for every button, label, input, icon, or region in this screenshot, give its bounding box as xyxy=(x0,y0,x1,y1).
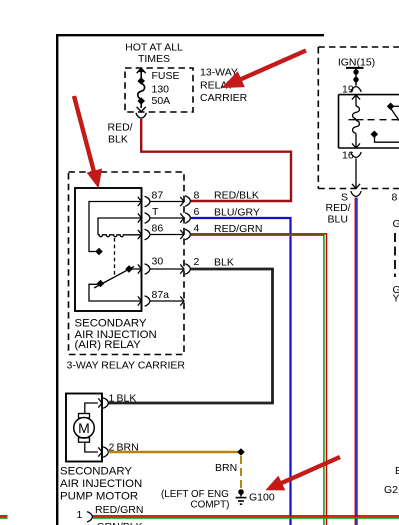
ground G100 xyxy=(236,489,247,504)
pin 4 socket xyxy=(185,229,190,239)
motor brush top xyxy=(79,414,90,419)
ignition relay switch lower contact wire xyxy=(375,137,399,143)
wire pin 16 to carrier edge xyxy=(352,159,360,189)
pin T xyxy=(138,213,184,223)
svg-text:30: 30 xyxy=(152,255,164,267)
wire RED/BLU (blue strand) xyxy=(356,198,358,525)
pin 87a xyxy=(138,296,184,306)
node: ignition relay switch contact lower xyxy=(371,131,379,139)
svg-text:50A: 50A xyxy=(152,95,171,107)
pin 30 xyxy=(138,264,184,274)
secondary air injection (AIR) relay (solid box) xyxy=(75,188,142,311)
secondary air injection pump motor (box) xyxy=(66,394,102,462)
annotation arrow to 13-way relay carrier label xyxy=(223,51,307,88)
label 13-WAY RELAY CARRIER xyxy=(200,67,248,105)
relay coil xyxy=(98,235,142,237)
svg-text:1: 1 xyxy=(109,393,115,405)
svg-text:RED/GRN: RED/GRN xyxy=(95,504,143,516)
motor armature M xyxy=(74,418,95,439)
label SECONDARY AIR INJECTION (AIR) RELAY xyxy=(75,318,157,352)
motor brush bottom xyxy=(79,438,90,443)
pin 87 xyxy=(138,196,184,206)
svg-text:RED/BLK: RED/BLK xyxy=(214,190,259,202)
svg-text:87: 87 xyxy=(152,189,164,201)
pin 6 socket xyxy=(185,213,190,223)
wire RED/GRN stub at left edge xyxy=(0,515,8,517)
svg-text:B: B xyxy=(395,465,399,477)
svg-text:COMPT): COMPT) xyxy=(191,500,230,511)
svg-text:T: T xyxy=(152,206,159,218)
svg-text:SECONDARY: SECONDARY xyxy=(75,318,147,330)
pin 2 socket xyxy=(185,264,190,274)
svg-text:CARRIER: CARRIER xyxy=(200,92,248,104)
svg-text:FUSE: FUSE xyxy=(152,70,180,82)
wire RED/GRN from pin 4 (red strand) xyxy=(191,234,327,525)
wire RED/GRN pump motor feed (red strand) xyxy=(93,515,399,517)
svg-text:86: 86 xyxy=(152,222,164,234)
svg-text:M: M xyxy=(78,420,90,436)
svg-text:(LEFT OF ENG: (LEFT OF ENG xyxy=(161,489,229,500)
node: relay common contact xyxy=(97,280,105,288)
svg-text:19: 19 xyxy=(342,84,354,96)
wire BRN from motor pin 2 xyxy=(109,451,242,453)
fuse 130 50A xyxy=(137,68,146,112)
svg-text:RED/: RED/ xyxy=(108,122,133,134)
ignition relay (solid box) xyxy=(339,95,399,148)
wire IGN feed xyxy=(355,68,357,86)
node: relay contact 30 xyxy=(125,265,133,273)
svg-text:6: 6 xyxy=(194,206,200,218)
svg-text:8: 8 xyxy=(194,189,200,201)
node: ignition feed junction 2 xyxy=(353,77,358,82)
svg-text:Y: Y xyxy=(393,293,399,305)
pump motor connector pin 1 xyxy=(87,512,92,522)
node: relay contact 87 xyxy=(95,248,103,256)
svg-text:2: 2 xyxy=(194,256,200,268)
relay internal wire: pin 30 xyxy=(131,268,142,270)
annotation arrow to AIR relay xyxy=(74,96,102,187)
wire RED/GRN from pin 4 (green strand) xyxy=(191,235,324,525)
label RED/BLU xyxy=(326,202,351,226)
node BRN junction xyxy=(237,448,245,456)
svg-text:GRN/BLK: GRN/BLK xyxy=(97,521,143,525)
node: fuse bottom junction xyxy=(137,97,145,105)
label HOT AT ALL TIMES xyxy=(125,42,183,65)
ignition relay switch linkage (dashed) xyxy=(368,119,399,121)
svg-text:G: G xyxy=(393,218,399,230)
svg-text:8: 8 xyxy=(392,192,398,204)
annotation arrow to ground G100 xyxy=(267,457,341,490)
ignition relay linkage tick xyxy=(349,119,364,121)
label FUSE 130 50A xyxy=(152,70,180,107)
svg-text:87a: 87a xyxy=(152,289,170,301)
svg-text:3-WAY RELAY CARRIER: 3-WAY RELAY CARRIER xyxy=(67,360,186,372)
ignition relay coil (squiggle) xyxy=(353,106,360,133)
relay switch arm xyxy=(94,267,134,289)
wire BLK from pin 2 to motor pin 1 xyxy=(109,269,273,403)
svg-text:AIR INJECTION: AIR INJECTION xyxy=(60,478,142,490)
relay internal wire: pin 87 branch xyxy=(89,202,142,252)
node: ignition feed junction 1 xyxy=(353,69,358,74)
wire RED/BLU (red strand) xyxy=(354,198,356,525)
connector socket below fuse xyxy=(136,113,146,118)
motor pin 2 xyxy=(98,447,108,457)
svg-text:RED/: RED/ xyxy=(326,202,351,214)
svg-text:BLK: BLK xyxy=(117,393,137,405)
fuse carrier (dashed box) xyxy=(125,68,193,112)
svg-text:13-WAY: 13-WAY xyxy=(200,67,238,79)
relay internal wire: pin 87a branch xyxy=(89,284,142,301)
pin 8 socket xyxy=(185,196,190,206)
wire BLU/GRY from pin 6 xyxy=(191,218,291,525)
label G.. Y.. (cut) xyxy=(393,284,399,305)
relay armature linkage (dashed) xyxy=(114,238,116,278)
svg-text:HOT AT ALL: HOT AT ALL xyxy=(125,42,183,54)
pin S socket xyxy=(351,191,361,196)
svg-text:4: 4 xyxy=(194,223,200,235)
svg-text:BRN: BRN xyxy=(215,462,237,474)
ignition relay coil wire bottom + pin 16 arrow xyxy=(352,133,360,148)
wire BRN dashed to ground xyxy=(240,456,242,489)
ignition relay switch arm xyxy=(391,109,399,122)
svg-text:PUMP MOTOR: PUMP MOTOR xyxy=(60,491,138,503)
ignition relay switch contact upper xyxy=(392,105,399,107)
svg-text:(AIR) RELAY: (AIR) RELAY xyxy=(75,339,142,351)
svg-text:G2: G2 xyxy=(384,484,398,496)
pin 19 arrow (inside relay) xyxy=(352,95,360,100)
motor internal wire pin 2 xyxy=(85,442,98,452)
svg-text:SECONDARY: SECONDARY xyxy=(60,466,132,478)
ignition feed bar xyxy=(346,67,364,69)
pin 19 socket xyxy=(351,87,361,92)
relay internal wire: pin T to coil xyxy=(98,218,142,235)
svg-text:BLK: BLK xyxy=(108,134,128,146)
node: fuse top junction xyxy=(137,77,145,85)
svg-text:1: 1 xyxy=(77,509,83,521)
label (LEFT OF ENG COMPT) xyxy=(161,489,229,511)
svg-text:BLU/GRY: BLU/GRY xyxy=(214,206,260,218)
motor internal wire pin 1 xyxy=(85,403,98,414)
pin 86 xyxy=(138,229,184,239)
pin 16 socket xyxy=(351,152,361,157)
3-way relay carrier (dashed box) xyxy=(69,172,185,355)
svg-text:16: 16 xyxy=(342,150,354,162)
wire RED/GRN pump motor feed (green strand) xyxy=(93,517,399,519)
ignition relay coil wire xyxy=(355,95,357,106)
svg-text:TIMES: TIMES xyxy=(138,53,170,65)
svg-text:G100: G100 xyxy=(249,492,275,504)
label RED/BLK (fuse output wire) xyxy=(108,122,133,146)
svg-text:BLK: BLK xyxy=(214,256,234,268)
svg-text:BLU: BLU xyxy=(328,214,348,226)
motor pin 1 xyxy=(98,398,108,408)
wire RED/BLK from fuse to relay pin 8 xyxy=(141,119,291,201)
13-way relay carrier (dashed box, ignition relay) xyxy=(318,47,399,189)
svg-text:130: 130 xyxy=(152,84,170,96)
svg-text:IGN(15): IGN(15) xyxy=(338,57,375,69)
dashed wire at right edge (cut) xyxy=(394,233,396,277)
label SECONDARY AIR INJECTION PUMP MOTOR xyxy=(60,466,142,503)
